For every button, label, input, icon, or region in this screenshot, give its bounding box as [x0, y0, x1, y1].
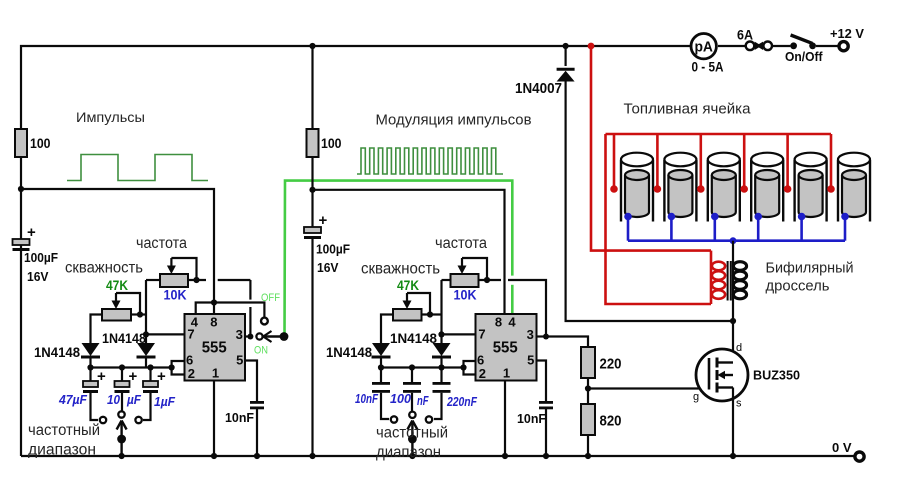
svg-text:nF: nF	[417, 394, 429, 408]
node: ground selector 2 pole	[409, 453, 415, 459]
capacitor C3 10µF	[115, 381, 130, 393]
node: cap row dot 2	[438, 364, 444, 370]
contact: range 1b	[118, 411, 124, 417]
contact: range 2c	[426, 416, 432, 422]
node: cathode dot cell 2	[668, 213, 676, 221]
wire red: anode drop 2	[656, 134, 659, 187]
terminal 0V	[855, 452, 864, 461]
svg-text:частотный: частотный	[376, 425, 448, 442]
wire: C6 to ground	[311, 239, 313, 456]
svg-text:диапазон: диапазон	[28, 442, 96, 459]
wire blue: cathode bus	[628, 239, 845, 242]
wire: U1 pin4/8 + OFF branch	[196, 303, 265, 318]
svg-text:частота: частота	[136, 235, 187, 252]
potentiometer RV1 10K	[160, 258, 188, 287]
diode D4 1N4148	[432, 343, 451, 357]
wire: U1 pin3 stub	[245, 335, 250, 337]
wire: RV2 wiper loop	[116, 293, 140, 315]
node: rail1 junction	[18, 186, 24, 192]
svg-text:2: 2	[188, 366, 195, 381]
wire: C3 to contact	[121, 393, 123, 411]
wire: RV3 right to hop	[479, 279, 502, 281]
svg-text:g: g	[693, 391, 699, 403]
svg-text:10K: 10K	[454, 287, 477, 303]
wire: C2 top lead	[89, 368, 91, 382]
potentiometer RV4 47K	[393, 293, 422, 321]
diode D5 1N4007	[557, 69, 575, 81]
contact: range 2b	[409, 412, 415, 418]
wire blue: cathode drop 6	[844, 217, 847, 241]
label: C6 100µF 16V	[316, 242, 350, 276]
node: SW1 pivot	[117, 435, 126, 444]
wire red: anode drop 4	[743, 134, 746, 187]
label: C1 100µF 16V	[24, 250, 58, 284]
node: cap row dot	[119, 364, 125, 370]
svg-text:7: 7	[187, 327, 194, 342]
svg-text:220: 220	[600, 357, 622, 373]
wire: RV3 wiper loop	[462, 258, 487, 280]
svg-text:s: s	[736, 398, 742, 410]
node: anode dot cell 5	[784, 185, 792, 193]
modulated pulse waveform	[357, 148, 503, 174]
wire: U1 pin1 to ground	[213, 381, 215, 457]
wire: RV1 to pin3 (after hop)	[218, 279, 251, 281]
svg-text:555: 555	[202, 340, 227, 357]
fuel cell FC1	[621, 153, 653, 222]
svg-text:Бифилярный: Бифилярный	[766, 260, 854, 277]
node: ground selector 1 pole	[119, 453, 125, 459]
wire red: +12V rail to bifilar choke top	[591, 46, 711, 251]
wire: U1 pin7 stub	[146, 333, 185, 335]
potentiometer RV3 10K	[451, 258, 479, 287]
svg-text:2: 2	[479, 366, 486, 381]
diode D1 1N4148	[81, 343, 100, 357]
svg-text:100µF: 100µF	[24, 250, 58, 265]
label: C3 10 µF	[107, 393, 141, 407]
svg-text:3: 3	[527, 327, 534, 342]
op-amp U1 555 body	[185, 314, 246, 381]
svg-text:100µF: 100µF	[316, 242, 350, 257]
node: SW2 pivot	[408, 435, 417, 444]
svg-text:1: 1	[212, 366, 219, 381]
capacitor C7 10nF	[372, 382, 390, 393]
svg-text:+: +	[97, 368, 106, 385]
node: U1 pin3 node	[247, 334, 253, 340]
wire: C10 to ground	[545, 407, 547, 457]
wire: R3-R4 link	[587, 378, 589, 404]
svg-text:ON: ON	[254, 345, 268, 357]
capacitor C2 47µF	[83, 381, 98, 393]
wire: U2 pin7 stub	[442, 333, 476, 335]
capacitor C9 220nF	[433, 382, 451, 393]
node: 1N4007 tap	[563, 43, 569, 49]
inductor L1 black winding	[733, 262, 746, 299]
wire: U2 pin2/6 bracket	[464, 361, 476, 375]
svg-text:µF: µF	[126, 393, 141, 407]
svg-text:On/Off: On/Off	[785, 50, 823, 64]
wire: timing cap node row 2	[381, 366, 464, 368]
switch S2 pole arrow	[263, 331, 284, 342]
label: C8 100 nF	[390, 392, 429, 408]
contact: OFF	[261, 318, 268, 325]
node: anode dot cell 6	[827, 185, 835, 193]
wire: diode branch top	[564, 46, 566, 66]
wire: choke/drain vertical	[732, 241, 734, 363]
node: cathode bus junction	[730, 237, 737, 244]
node: ground R4	[585, 453, 591, 459]
label: частотный диапазон 2	[376, 425, 448, 462]
contact: range 2a	[391, 416, 397, 422]
svg-text:pA: pA	[694, 40, 713, 56]
potentiometer RV2 47K	[102, 293, 131, 321]
svg-text:частота: частота	[435, 235, 487, 252]
node: cap row dot	[87, 364, 93, 370]
node: RV4 junction	[427, 311, 433, 317]
svg-text:8: 8	[210, 315, 217, 330]
node: rail2 junction	[309, 187, 315, 193]
svg-text:10nF: 10nF	[225, 410, 254, 425]
wire: D2 anode stub	[145, 334, 147, 343]
wire: C9 top lead	[440, 368, 442, 383]
wire blue: cathode drop 5	[800, 217, 803, 241]
node: cathode dot cell 6	[841, 213, 849, 221]
svg-text:Модуляция импульсов: Модуляция импульсов	[376, 113, 532, 129]
wire: U2 pin3 to divider	[537, 335, 547, 337]
contact: ON	[256, 333, 262, 339]
wire: RV4 left down	[381, 315, 393, 344]
node: ground C10	[543, 453, 549, 459]
svg-text:5: 5	[236, 353, 243, 368]
svg-text:100: 100	[390, 392, 411, 406]
wire red: choke bottom to fuel-cell bus	[606, 134, 712, 304]
inductor L1 core	[728, 261, 731, 301]
wire: RV4 wiper loop	[407, 293, 430, 315]
resistor R4 820	[581, 404, 595, 435]
svg-text:BUZ350: BUZ350	[753, 368, 800, 383]
wire: R4 to ground	[587, 435, 589, 456]
wire: RV1 right to hop	[188, 279, 206, 281]
wire: U1 pin5 to C5	[245, 361, 257, 402]
svg-text:47K: 47K	[397, 278, 419, 293]
wire: gate wire from divider	[588, 387, 709, 389]
wire: RV1 wiper loop	[171, 258, 196, 280]
switch SW1 selector	[117, 421, 127, 457]
node: anode dot cell 1	[610, 185, 618, 193]
wire blue: cathode drop 3	[713, 217, 716, 241]
node: ground C5	[254, 453, 260, 459]
wire: C3 top lead	[121, 368, 123, 382]
op-amp U2 555 body	[476, 314, 537, 381]
fuel cell FC4	[751, 153, 783, 222]
wire red: anode drop 6	[830, 134, 833, 187]
svg-text:Импульсы: Импульсы	[76, 109, 145, 125]
capacitor C8 100nF	[403, 382, 421, 393]
wire: U2 pin5 to C10	[537, 361, 547, 402]
svg-text:1: 1	[503, 366, 510, 381]
wire: RV4 right stub	[422, 313, 442, 315]
svg-text:+12 V: +12 V	[830, 26, 864, 41]
svg-text:10: 10	[107, 393, 120, 407]
wire blue: cathode drop 1	[627, 217, 630, 241]
wire: rail 1	[21, 189, 214, 314]
capacitor C1 100uF	[13, 239, 30, 251]
diode D2 1N4148	[137, 343, 156, 357]
wire: C9 to contact	[434, 393, 442, 419]
ammeter M1	[691, 34, 716, 59]
wire: RV3 to pin3 (after hop)	[508, 280, 546, 337]
wire: U2 pin1 to ground	[504, 381, 506, 457]
wire red: anode drop 5	[786, 134, 789, 187]
wire: branch 2 vertical	[311, 46, 313, 129]
resistor R1 100	[15, 129, 27, 157]
svg-text:47K: 47K	[106, 278, 128, 293]
wire red: fuel cell anode bus	[606, 133, 832, 136]
svg-text:скважность: скважность	[65, 260, 143, 277]
wire: RV2 right stub	[131, 313, 146, 315]
wire: C4 top lead	[149, 368, 151, 382]
svg-text:дроссель: дроссель	[766, 278, 830, 295]
svg-text:8: 8	[495, 315, 502, 330]
fuse F1 6A	[746, 42, 772, 51]
capacitor C4 1µF	[143, 381, 158, 393]
svg-text:0 V: 0 V	[832, 440, 852, 455]
wire: C2 to contact	[91, 393, 99, 420]
wire: MOSFET source to ground	[732, 388, 734, 457]
svg-text:1N4148: 1N4148	[390, 330, 437, 346]
node: cathode dot cell 4	[754, 213, 762, 221]
label: Бифилярный дроссель	[766, 260, 854, 295]
wire: D2 cathode to node	[145, 357, 147, 368]
wire: D4 cathode to node	[440, 357, 442, 368]
svg-text:d: d	[736, 342, 742, 354]
svg-text:1µF: 1µF	[154, 395, 175, 409]
wire: timing node vertical 1	[146, 280, 160, 334]
svg-text:3: 3	[236, 327, 243, 342]
switch S1 On/Off	[790, 35, 816, 49]
node: ground branch 2	[309, 453, 315, 459]
svg-text:Топливная ячейка: Топливная ячейка	[624, 102, 752, 118]
node: anode dot cell 2	[654, 185, 662, 193]
terminal +12V	[839, 42, 848, 51]
node: cap row dot	[169, 364, 175, 370]
svg-text:1N4007: 1N4007	[515, 81, 562, 97]
wire blue: cathode drop 4	[757, 217, 760, 241]
svg-text:1N4148: 1N4148	[34, 344, 80, 360]
wire: C8 to contact	[411, 393, 413, 411]
fuel cell FC5	[795, 153, 827, 222]
wire: U1 pin2/6 bracket	[172, 361, 185, 375]
svg-text:0 - 5A: 0 - 5A	[692, 60, 724, 75]
fuel cell FC2	[664, 153, 696, 222]
wire: D4 anode stub	[440, 334, 442, 343]
node: U1 pin7 node	[143, 331, 149, 337]
node: ground U2 pin1	[502, 453, 508, 459]
capacitor C6 100uF	[304, 227, 321, 239]
wire: pin3 feedback vertical	[249, 280, 251, 337]
wire red: anode drop 1	[613, 134, 616, 187]
wire: C4 to contact	[143, 393, 151, 420]
svg-text:555: 555	[493, 340, 518, 357]
svg-text:47µF: 47µF	[58, 393, 87, 407]
wire: timing node vertical 2	[442, 280, 451, 334]
node: cap row dot 2	[378, 364, 384, 370]
svg-text:7: 7	[478, 327, 485, 342]
switch SW2 selector	[407, 421, 417, 456]
wire red: anode drop 3	[699, 134, 702, 187]
wire: diode to drain junction	[566, 81, 733, 321]
wire: C5 to ground	[256, 407, 258, 457]
svg-text:10K: 10K	[164, 287, 187, 303]
svg-text:100: 100	[321, 135, 342, 151]
svg-text:5: 5	[527, 353, 534, 368]
wire: C7 to contact	[381, 393, 389, 419]
svg-text:820: 820	[600, 414, 622, 430]
capacitor C10 10nF	[539, 401, 553, 409]
node: cathode dot cell 3	[711, 213, 719, 221]
contact: range 1c	[135, 417, 141, 423]
wire: D3 cathode to node	[380, 357, 382, 368]
node: cathode dot cell 1	[624, 213, 632, 221]
svg-text:+: +	[27, 224, 36, 241]
svg-text:220nF: 220nF	[446, 395, 477, 409]
svg-text:16V: 16V	[317, 260, 339, 275]
svg-text:+: +	[129, 368, 138, 385]
wire blue: cathode drop 2	[670, 217, 673, 241]
node: branch 2 tap	[309, 43, 315, 49]
wire: pin3 junction to R3	[546, 337, 588, 348]
node: S2 pole dot	[280, 332, 289, 341]
wire: D1 cathode to node	[89, 357, 91, 368]
svg-text:частотный: частотный	[28, 422, 100, 439]
node: cathode dot cell 5	[798, 213, 806, 221]
svg-text:4: 4	[508, 315, 516, 330]
svg-text:100: 100	[30, 135, 51, 151]
pulse waveform (Impulsy)	[67, 155, 208, 181]
inductor L1 red winding	[712, 262, 725, 299]
diode D3 1N4148	[372, 343, 391, 357]
contact: range 1a	[100, 417, 106, 423]
node: U2 pin3 junction	[543, 334, 549, 340]
node: red wire tap	[588, 43, 595, 50]
svg-text:10nF: 10nF	[517, 411, 546, 426]
svg-text:+: +	[319, 212, 328, 229]
node: anode dot cell 3	[697, 185, 705, 193]
wire: C6 lead	[311, 190, 313, 227]
wire: C8 top lead	[411, 368, 413, 383]
svg-text:1N4148: 1N4148	[102, 330, 146, 346]
node: RV1 junction	[193, 277, 199, 283]
resistor R2 100	[307, 129, 319, 157]
svg-text:6A: 6A	[737, 27, 753, 43]
svg-text:OFF: OFF	[261, 292, 280, 304]
wire: timing cap node row 1	[91, 366, 172, 368]
node: cap row dot	[147, 364, 153, 370]
node: gate divider junction	[585, 385, 591, 391]
wire: R2 to rail2	[311, 157, 313, 190]
node: ground U1 pin1	[211, 453, 217, 459]
node: U2 pin7 node	[438, 331, 444, 337]
fuel cell FC6	[838, 153, 870, 222]
wire: +12V top rail	[21, 46, 839, 456]
resistor R3 220	[581, 347, 595, 378]
transistor Q1 BUZ350	[696, 349, 748, 401]
capacitor C5 10nF	[250, 401, 264, 409]
wire: rail 2	[313, 190, 505, 314]
node: U1 pins 4-8 junction	[211, 299, 217, 305]
node: cap row dot 2	[409, 364, 415, 370]
wire red: choke winding line	[710, 251, 713, 304]
label: частотный диапазон 1	[28, 422, 100, 459]
svg-text:10nF: 10nF	[355, 392, 378, 406]
wire: C7 top lead	[380, 368, 382, 383]
node: drain junction	[730, 318, 736, 324]
node: ground Q1 source	[730, 453, 736, 459]
node: RV3 junction	[484, 277, 490, 283]
node: RV2 junction	[137, 311, 143, 317]
node: anode dot cell 4	[740, 185, 748, 193]
wire: 0V bottom rail	[21, 455, 855, 457]
node: cap row dot 2	[460, 364, 466, 370]
svg-text:+: +	[157, 368, 166, 385]
svg-text:диапазон: диапазон	[376, 444, 441, 461]
wire green: switch pole up and across to U2 pin 4	[285, 181, 513, 337]
wire: RV2 left down	[91, 315, 103, 344]
svg-text:16V: 16V	[27, 269, 49, 284]
svg-text:скважность: скважность	[361, 261, 440, 278]
fuel cell FC3	[708, 153, 740, 222]
svg-text:1N4148: 1N4148	[326, 344, 372, 360]
